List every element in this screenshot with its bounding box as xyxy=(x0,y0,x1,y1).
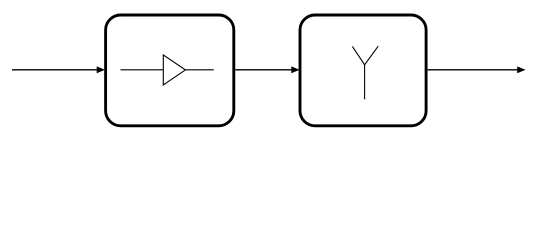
block: amplifier box U1 xyxy=(106,15,234,126)
wire: arrow from amplifier to antenna block xyxy=(235,67,298,72)
block: antenna box A1 xyxy=(300,15,426,126)
wire: output arrow from antenna block xyxy=(428,67,525,72)
amplifier symbol (triangle buffer) xyxy=(121,55,214,85)
wire: input arrow into amplifier block xyxy=(12,67,104,72)
antenna symbol (Y) xyxy=(352,46,378,99)
